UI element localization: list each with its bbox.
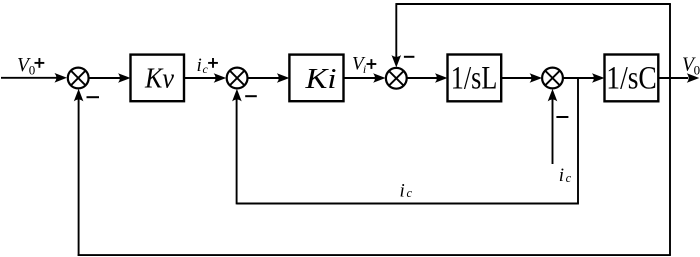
wire outer voltage feedback: bottom horizontal run [78,254,671,256]
block 1/sC (capacitor transfer function) [605,55,659,102]
svg-text:i: i [400,180,405,201]
svg-text:1/sC: 1/sC [606,61,657,97]
wire 1/sL to summing junction S4 [501,73,542,83]
wire S3 to block 1/sL [407,73,448,83]
wire Ki to summing junction S3 [344,73,386,83]
svg-text:i: i [559,165,564,186]
svg-text:c: c [203,62,209,76]
node ic load-current label [559,165,572,186]
plus sign at S3 input [367,59,377,69]
wire Kv to summing junction S2 [184,73,226,83]
minus sign at S2 feedback input [245,95,257,97]
wire top feedback: tap on output up [669,4,671,78]
wire S2 to block Ki [249,73,290,83]
summing junction S3 [386,68,407,89]
summing junction S4 [542,68,563,89]
wire S4 to block 1/sC with junction tap [563,73,605,83]
summing junction S2 [227,68,248,89]
svg-text:Kv: Kv [144,63,174,95]
block Kv (voltage regulator gain) [131,55,185,102]
summing junction S1 [68,68,89,89]
wire top feedback: horizontal run [396,3,671,5]
wire input V0* to summing junction S1 [1,73,67,83]
block Ki (current regulator gain) [289,55,343,102]
wire outer voltage feedback: tap down right side [669,78,671,255]
wire 1/sC to output V0 [658,73,699,83]
minus sign at S1 feedback input [87,96,100,98]
minus sign at S3 feedback input [404,56,415,58]
wire top feedback: down into S3 [392,3,402,67]
svg-text:c: c [407,186,413,200]
svg-text:Ki: Ki [304,63,336,95]
wire ic load-current input into S4 [548,89,558,164]
node V0* input label [17,55,35,77]
plus sign at S2 input [208,58,218,68]
svg-text:c: c [566,171,572,185]
wire inner current feedback: horizontal run [237,203,579,205]
wire S1 to block Kv [90,73,131,83]
node V0 output label [682,55,700,78]
svg-text:0: 0 [694,62,700,77]
plus sign at S1 input [35,58,45,68]
wire inner current feedback: tap down [577,78,579,204]
block 1/sL (inductor transfer function) [448,55,502,102]
svg-text:1/sL: 1/sL [451,61,498,97]
node ic feedback label (bottom) [400,180,413,201]
svg-text:i: i [363,62,366,76]
wire inner current feedback: up into S2 [232,89,242,204]
svg-text:i: i [197,55,202,76]
node Vi* label [352,54,366,77]
svg-text:0: 0 [29,63,36,78]
node ic* label [197,55,209,76]
minus sign at S4 load-current input [556,116,568,118]
wire outer voltage feedback: up into S1 [74,89,84,256]
